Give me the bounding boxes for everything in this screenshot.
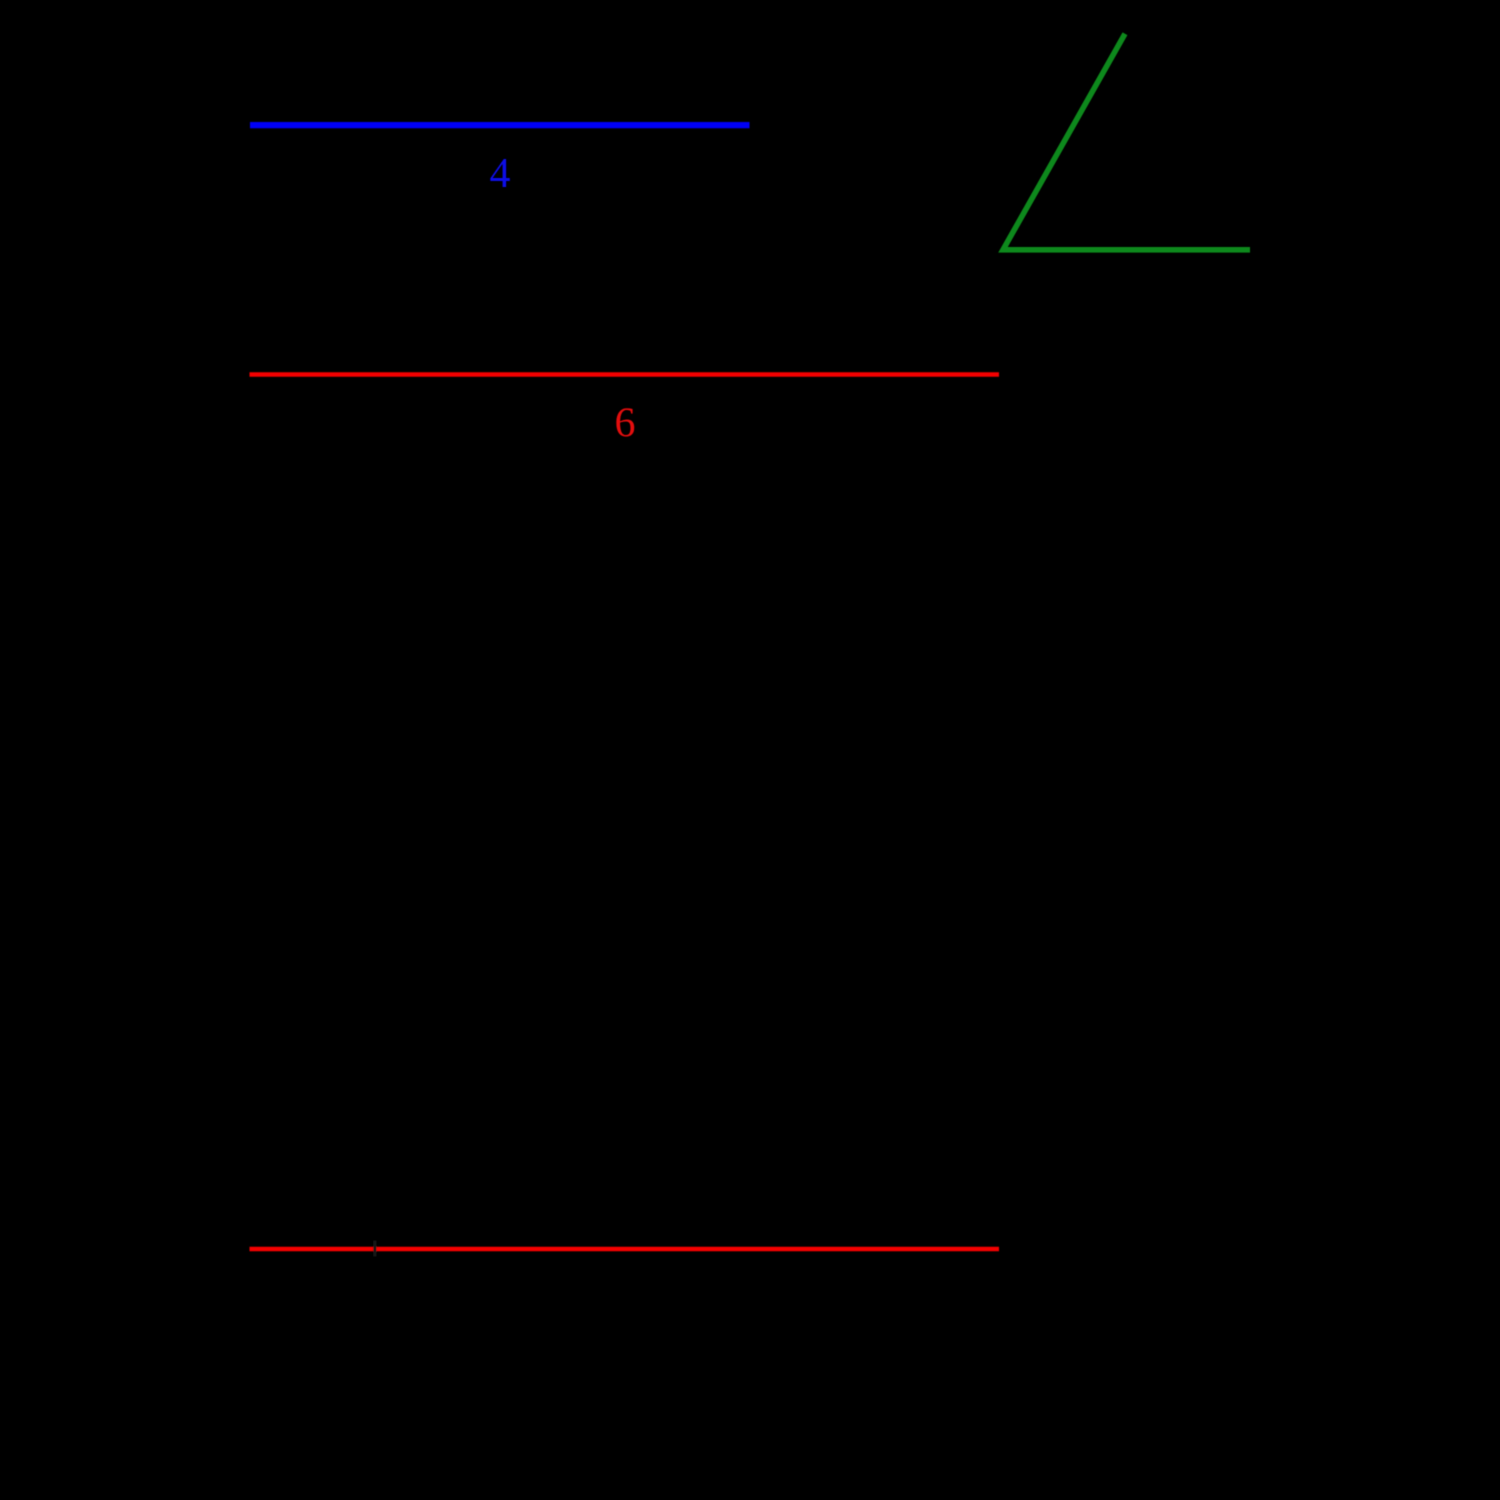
- red segment length 6: [250, 372, 1000, 377]
- svg-text:4: 4: [490, 151, 511, 197]
- blue segment length 4: [250, 122, 750, 128]
- dark tick on bottom segment: [373, 1241, 376, 1257]
- svg-text:6: 6: [615, 401, 636, 447]
- green angle: [1003, 34, 1250, 250]
- bottom red segment: [250, 1247, 1000, 1252]
